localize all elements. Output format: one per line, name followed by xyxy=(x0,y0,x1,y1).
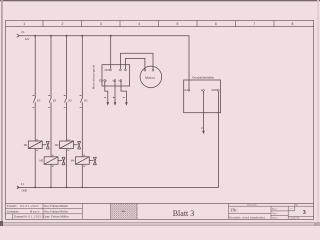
svg-text:Gepr. v: Gepr. v xyxy=(272,213,278,215)
svg-text:—: — xyxy=(290,208,293,211)
right section header xyxy=(229,205,314,207)
svg-text:Heute: Heute xyxy=(30,209,40,213)
contact K3 blade xyxy=(64,95,67,107)
svg-text:Erstellt:: Erstellt: xyxy=(7,204,17,208)
coil Y4 xyxy=(75,157,89,165)
svg-text:Geändert:: Geändert: xyxy=(7,209,19,213)
pin U1 b1 xyxy=(114,80,116,82)
tank box B1 xyxy=(184,80,221,113)
left window edge xyxy=(1,0,3,226)
svg-text:A2: A2 xyxy=(52,165,54,168)
svg-text:05.01.2021: 05.01.2021 xyxy=(20,204,39,208)
node dot gnd2 xyxy=(50,187,52,189)
svg-text:A1: A1 xyxy=(67,138,69,141)
svg-text:M4: M4 xyxy=(71,159,75,163)
drawing frame xyxy=(6,21,314,220)
svg-text:2G: 2G xyxy=(68,98,71,102)
svg-text:2: 2 xyxy=(62,22,64,26)
node dot bus5 xyxy=(110,35,112,37)
svg-text:7: 7 xyxy=(253,22,255,26)
contact K2 blade xyxy=(48,95,51,107)
motor M1 circle xyxy=(140,66,162,88)
svg-text:ZNr:: ZNr: xyxy=(231,208,238,212)
svg-text:A1: A1 xyxy=(36,138,38,141)
node dot gnd4 xyxy=(81,187,83,189)
node dot bus2 xyxy=(50,35,52,37)
arrow a xyxy=(107,102,110,105)
valve symbol V1 xyxy=(42,141,49,149)
node dot gnd1 xyxy=(34,187,36,189)
svg-text:M1: M1 xyxy=(24,143,28,147)
corner small cell xyxy=(288,206,295,211)
column strip bottom line xyxy=(6,26,314,28)
node dot bus3 xyxy=(66,35,68,37)
pin U1 30V xyxy=(104,80,106,82)
valve symbol V3 xyxy=(58,157,65,165)
coil Y1 xyxy=(28,141,42,149)
controller U1 box xyxy=(102,65,130,86)
wire tank sensor out xyxy=(203,91,205,131)
pin tank +12 xyxy=(188,89,190,91)
svg-text:A2: A2 xyxy=(83,165,85,168)
title row lines left xyxy=(6,209,83,220)
svg-text:Datum:: Datum: xyxy=(14,215,23,219)
svg-text:Bear. v: Bear. v xyxy=(272,209,277,211)
svg-text:Motor: Motor xyxy=(145,76,155,80)
hatch cell xyxy=(111,204,137,220)
svg-text:Blatt: Blatt xyxy=(294,205,298,207)
coil Y2 xyxy=(60,141,74,149)
svg-text:A1: A1 xyxy=(83,154,85,157)
svg-text:3: 3 xyxy=(100,22,102,26)
svg-text:12V: 12V xyxy=(104,68,109,72)
node dot bus4 xyxy=(81,35,83,37)
svg-text:12V: 12V xyxy=(25,37,30,41)
svg-text:2G: 2G xyxy=(37,98,40,102)
column numbers xyxy=(23,22,293,26)
svg-text:3.1: 3.1 xyxy=(21,30,25,34)
pin U1 b2 xyxy=(120,80,122,82)
wire drop 4 xyxy=(81,36,83,188)
wire drop 1 xyxy=(34,36,36,188)
svg-text:GND: GND xyxy=(22,188,28,192)
wire drop 3 xyxy=(66,36,68,188)
svg-text:A1: A1 xyxy=(52,154,54,157)
wire U1 pin b out xyxy=(114,82,116,103)
contact K1 blade xyxy=(33,95,36,107)
bottom window edge xyxy=(0,221,320,224)
svg-text:3.1: 3.1 xyxy=(21,182,25,186)
node label ticks under U1 xyxy=(104,96,124,98)
svg-text:Von: Fabian Müller: Von: Fabian Müller xyxy=(44,204,68,208)
svg-text:GND: GND xyxy=(211,88,217,92)
node gnd start chevron xyxy=(17,186,19,189)
pin U1 m+ xyxy=(120,69,122,71)
svg-text:Projekt: wird bearbeitet: Projekt: wird bearbeitet xyxy=(229,215,264,219)
svg-text:5: 5 xyxy=(177,22,179,26)
svg-text:Kostenstelle: Kostenstelle xyxy=(247,205,257,207)
corner bottom row xyxy=(288,215,313,217)
schematic small texts xyxy=(21,30,30,192)
svg-text:Gepr: Fabian Müller: Gepr: Fabian Müller xyxy=(43,215,68,219)
svg-text:Motorsteuergerät: Motorsteuergerät xyxy=(91,65,95,90)
svg-text:b₁: b₁ xyxy=(113,78,115,82)
pin circles xyxy=(104,69,219,91)
top window edge xyxy=(0,0,320,1)
svg-text:b₂: b₂ xyxy=(118,78,121,82)
node dot bus1 xyxy=(34,35,36,37)
title verticals left xyxy=(43,203,229,219)
svg-text:Norm v: Norm v xyxy=(272,217,278,219)
svg-text:A2: A2 xyxy=(36,149,38,152)
arrow c xyxy=(125,102,128,105)
pin U1 12V xyxy=(110,69,112,71)
valve symbol V2 xyxy=(74,141,81,149)
svg-text:Anzahl d. Bl.: Anzahl d. Bl. xyxy=(290,217,301,220)
svg-text:2G: 2G xyxy=(84,98,87,102)
arrow b xyxy=(114,102,117,105)
pin tank gnd xyxy=(217,89,219,91)
title block top xyxy=(6,202,314,204)
svg-text:8: 8 xyxy=(292,22,294,26)
contact K4 blade xyxy=(80,95,83,107)
wire U1 pin c out xyxy=(121,82,126,103)
column dividers xyxy=(43,21,274,27)
pin motor + xyxy=(144,69,146,71)
pin motor - xyxy=(152,69,154,71)
svg-text:Von: Fabian Müller: Von: Fabian Müller xyxy=(44,209,68,213)
svg-text:A2: A2 xyxy=(67,149,69,152)
right window edge xyxy=(317,0,319,226)
wire 12V bus xyxy=(19,36,190,90)
svg-text:06.01.2021: 06.01.2021 xyxy=(23,215,42,219)
arrow sensor xyxy=(202,131,205,134)
wire bus to U1 12V pin xyxy=(110,36,112,69)
svg-text:2G: 2G xyxy=(53,98,56,102)
node bus start chevron xyxy=(17,34,19,37)
wire U1 pin a out xyxy=(105,82,108,103)
wire U1 to motor pin right xyxy=(120,53,153,69)
svg-text:4: 4 xyxy=(138,22,140,26)
wire GND bus xyxy=(17,91,218,187)
hatch center mark xyxy=(122,211,125,212)
svg-text:M3: M3 xyxy=(39,159,43,163)
svg-text:-: - xyxy=(118,69,119,72)
coil Y3 xyxy=(44,157,58,165)
svg-text:M2: M2 xyxy=(55,143,59,147)
svg-text:30V: 30V xyxy=(99,79,104,83)
right section verticals xyxy=(271,206,288,219)
svg-text:-: - xyxy=(149,69,150,72)
wire U1 to motor pin left xyxy=(125,58,144,69)
wire drop 2 xyxy=(50,36,52,188)
node dot gnd3 xyxy=(66,187,68,189)
pin U1 m- xyxy=(125,69,127,71)
svg-text:6: 6 xyxy=(215,22,217,26)
svg-text:Blatt 3: Blatt 3 xyxy=(173,209,195,218)
svg-text:+12: +12 xyxy=(183,88,188,92)
svg-text:Druckluftbehälter: Druckluftbehälter xyxy=(192,76,214,80)
right section row lines xyxy=(229,211,289,215)
valve symbol V4 xyxy=(89,157,96,165)
pin tank s xyxy=(203,90,205,92)
svg-text:1: 1 xyxy=(23,22,25,26)
